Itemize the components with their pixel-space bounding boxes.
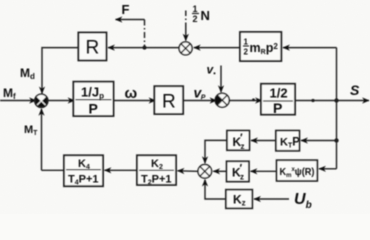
block R1 (top regulator) [78,33,106,61]
svg-text:2: 2 [193,14,198,24]
wire: main junction to 1/Jp block [48,100,75,102]
block Kz [226,190,252,209]
block K4/(T4P+1) [64,155,103,186]
svg-text:Kmxψ(R): Kmxψ(R) [280,166,315,179]
node: F junction dot [143,46,147,50]
svg-text:P: P [273,100,282,116]
wire: row A Kz'' output to lower junction top [205,140,227,163]
block KT P [276,131,300,151]
wire: vertical corner into psi block right [319,168,337,170]
wire: psi block to Kz' (arrow into Kz' right) [251,170,277,172]
svg-text:T2P+1: T2P+1 [141,174,172,187]
svg-text:ω: ω [125,85,138,102]
summing junction top (N) [179,42,192,55]
wire: vertical to KTp (arrow into KTp right) [301,140,337,142]
block text 1/2 mRp2 [243,38,278,57]
block Kz' [227,161,249,181]
block 1/2 over P [261,84,295,115]
wire: right vertical into m block (arrow into its right edge) [283,47,337,49]
svg-text:N: N [201,8,210,23]
wire: K2 to K4 (arrow into K4 right) [105,169,138,171]
summing junction v (vP+vw) [215,93,229,107]
node: small dot before 1/2P block [252,98,255,101]
svg-text:2: 2 [244,48,249,57]
wire: top feedback line from R1 left to corner [42,48,78,88]
wire: v junction to 1/2 P block [229,100,262,102]
svg-text:1/2: 1/2 [270,86,288,101]
block 1/2 mRp^2 [240,32,281,61]
wire: R2 to v junction [183,100,216,102]
wire: MT feedback vertical up into main junction bottom [41,109,43,171]
svg-text:R: R [162,92,176,113]
node: junction dot vertical/KTp row [334,138,338,142]
block Km psi(R) [277,160,318,181]
wire: lower junction to K2 (arrow into K2 right) [178,170,199,173]
svg-text:1: 1 [193,4,198,14]
block R2 (middle regulator) [154,86,183,114]
wire: row B Kz' output into lower junction right [213,170,226,172]
wire: MT horizontal to K4 block [42,169,65,171]
wire: vw drop into v junction [220,66,222,93]
wire: F vertical dash-dot drop [144,20,146,48]
svg-text:′: ′ [240,132,243,144]
wire: F horizontal arrow [116,19,145,21]
wire: KTp to Kz'' (arrow into Kz'' right) [251,140,276,142]
svg-text:P: P [89,101,98,117]
wire: m block output to top junction (arrow into junction right) [194,47,240,49]
wire: top junction to R1 input (arrow into R1 right edge) [108,47,179,49]
wire: N dash-dot vertical into top junction [185,11,187,29]
label 1/2 N [192,4,210,24]
block 1/Jp over P [73,82,113,116]
wire: Md arrow into main summing junction top [41,88,43,93]
svg-text:T4P+1: T4P+1 [68,174,99,187]
wire: output line to S [295,100,369,102]
block Kz'' [227,131,249,151]
node: small dot on output line [311,99,314,102]
summing junction main (Mf+Md+MT) [35,94,48,107]
svg-text:′: ′ [240,163,243,175]
wire: Mf input line [0,100,36,102]
wire: row C Kz output up into lower junction bottom [205,180,226,199]
wire: right feedback vertical line [336,48,338,169]
summing junction lower (Kz sum) [198,165,212,179]
svg-text:F: F [122,2,130,17]
svg-text:S: S [350,82,360,98]
block K2/(T2P+1) [137,155,176,185]
wire: omega line 1/Jp to R2 [114,100,156,102]
svg-text:1: 1 [244,38,249,47]
wire: Ub dash into Kz right [254,198,289,200]
node: junction dot output/vertical [334,98,338,102]
svg-text:R: R [86,38,100,59]
